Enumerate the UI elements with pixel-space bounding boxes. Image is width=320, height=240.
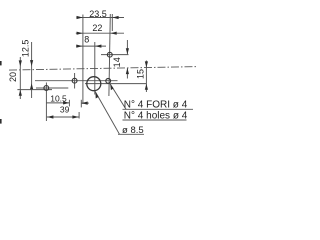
extension line 22 / hole column right	[109, 14, 110, 96]
arrow 15 top (up at centerline)	[145, 61, 148, 67]
dimension line 15	[145, 61, 147, 93]
hole A vertical extension	[45, 83, 47, 122]
svg-text:10.5: 10.5	[50, 93, 67, 103]
hole B circle	[72, 78, 77, 83]
dimension line 20 vertical	[19, 57, 21, 99]
dimension line 10.5	[47, 102, 70, 104]
arrow 14 top (down)	[126, 48, 129, 54]
big circle vertical centerline	[94, 42, 96, 95]
underline holes	[123, 119, 187, 121]
arrow 12.5 bottom (up)	[30, 83, 33, 89]
underline FORI	[123, 108, 194, 110]
dimension line 8	[76, 45, 106, 47]
big circle horizontal centerline	[85, 83, 146, 85]
arrow 8 left	[76, 45, 82, 48]
svg-text:23.5: 23.5	[89, 9, 107, 19]
scan speck left 1	[0, 61, 2, 65]
arrow 22 left	[77, 32, 83, 35]
arrow 12.5 top (down)	[30, 60, 33, 66]
arrow 23.5 left	[77, 16, 83, 19]
svg-text:8: 8	[84, 35, 89, 45]
holes B C line	[35, 80, 118, 82]
svg-text:15: 15	[136, 69, 146, 79]
big circle 8.5	[87, 77, 101, 91]
arrow 10.5 right piece (left pointing)	[81, 102, 87, 105]
svg-text:39: 39	[60, 104, 70, 114]
extension line left of top dims	[82, 15, 84, 105]
leader arrowhead big circle	[95, 92, 98, 99]
leader to hole C	[110, 84, 126, 110]
dimension line 22	[76, 32, 124, 34]
dimension line 14 lower piece	[126, 68, 128, 79]
hole A horizontal line	[36, 87, 68, 89]
hole D horizontal crosshair	[101, 54, 129, 56]
hole D circle	[107, 52, 112, 57]
svg-text:12.5: 12.5	[20, 40, 30, 58]
dimension line 12.5 vertical	[31, 42, 33, 98]
svg-text:ø 8.5: ø 8.5	[122, 125, 144, 136]
svg-text:14: 14	[112, 57, 122, 67]
dimension line 14 upper piece	[126, 40, 128, 54]
arrow 15 bottom (down)	[145, 84, 148, 90]
scan speck left 2	[0, 119, 2, 124]
svg-text:N° 4 FORI ø 4: N° 4 FORI ø 4	[124, 100, 188, 111]
arrow 39 left	[47, 115, 53, 118]
centerline main horizontal	[9, 67, 197, 71]
arrow 8 right	[95, 45, 101, 48]
arrow 14 bottom (up)	[126, 68, 129, 74]
arrow 23.5 right	[112, 16, 118, 19]
underline 8.5	[118, 133, 144, 135]
arrow 39 right	[72, 115, 78, 118]
hole C circle	[106, 79, 111, 84]
hole A circle	[44, 86, 49, 91]
bottom edge line	[17, 89, 52, 91]
extension line 23.5	[111, 14, 113, 31]
dimension line 39	[47, 116, 79, 118]
leader arrowhead hole C	[110, 84, 113, 90]
dimension line 10.5 right piece	[81, 102, 89, 104]
arrow 20 top (down at centerline)	[19, 60, 22, 66]
svg-text:N° 4 holes ø 4: N° 4 holes ø 4	[124, 111, 188, 122]
svg-text:20: 20	[8, 72, 18, 82]
leader to big circle	[95, 92, 119, 135]
extension tick 10.5 right outer	[80, 100, 82, 108]
svg-text:22: 22	[92, 23, 102, 33]
arrow 20 bottom (up at bottom edge)	[19, 90, 22, 96]
hole B vertical crosshair	[74, 73, 76, 89]
arrow 10.5 left piece (right pointing)	[63, 101, 69, 104]
extension tick 39 right	[78, 112, 80, 119]
extension tick 10.5 right	[68, 100, 70, 107]
dimension line 23.5	[76, 17, 124, 19]
arrow 22 right	[110, 32, 116, 35]
